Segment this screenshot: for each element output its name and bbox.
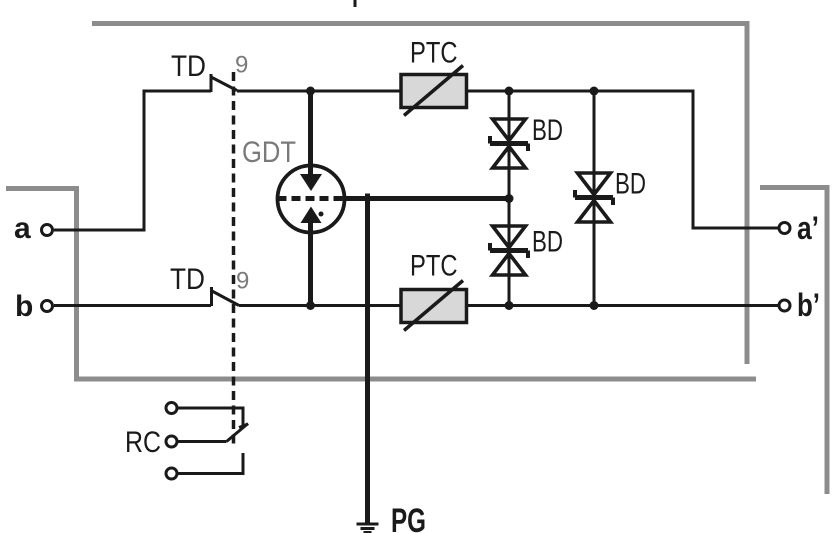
svg-text:BD: BD <box>532 114 563 147</box>
svg-text:b: b <box>15 290 33 323</box>
svg-text:BD: BD <box>532 226 563 259</box>
svg-text:TD: TD <box>170 263 205 296</box>
svg-text:GDT: GDT <box>242 136 296 169</box>
svg-text:9: 9 <box>235 52 248 79</box>
svg-text:b’: b’ <box>797 287 820 323</box>
svg-text:PTC: PTC <box>410 37 458 70</box>
svg-text:RC: RC <box>125 426 161 459</box>
svg-text:PTC: PTC <box>410 250 458 283</box>
svg-text:PG: PG <box>391 502 426 533</box>
svg-text:9: 9 <box>236 268 249 295</box>
svg-text:TD: TD <box>171 50 206 83</box>
svg-text:a: a <box>14 212 31 245</box>
svg-text:a’: a’ <box>797 210 819 246</box>
svg-text:BD: BD <box>615 168 646 201</box>
